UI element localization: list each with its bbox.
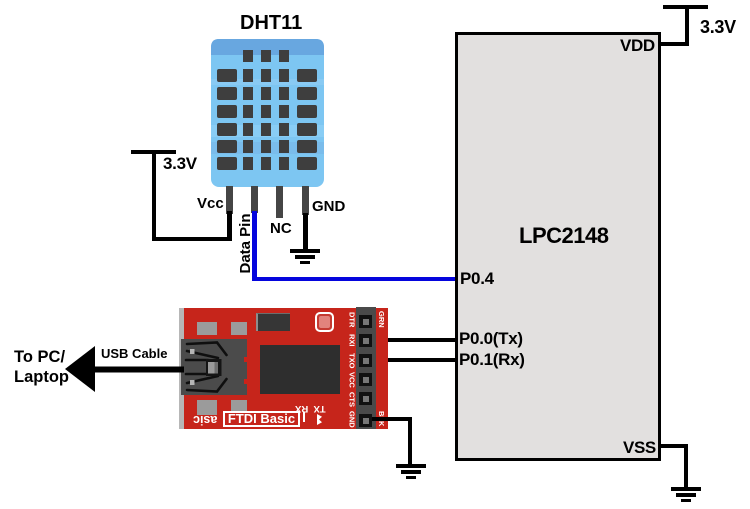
wire Vcc: up to pin 1 — [227, 211, 232, 241]
svg-text:VCC: VCC — [348, 372, 357, 388]
FTDI label box FTDI Basic — [223, 411, 300, 427]
power symbol 3.3V (left) — [131, 150, 176, 154]
FTDI label GRN — [377, 309, 387, 331]
FTDI pin VCC — [359, 373, 372, 386]
svg-text:GND: GND — [348, 411, 357, 428]
power symbol 3.3V (top right) bar — [663, 5, 708, 9]
FTDI pin RXI — [359, 334, 372, 347]
label LPC2148 — [519, 223, 608, 249]
FTDI pad top-right — [231, 322, 247, 335]
svg-text:GRN: GRN — [377, 311, 386, 328]
wire GND of DHT11 down — [303, 213, 308, 251]
USB connector — [181, 339, 248, 395]
FTDI silkscreen asic (rotated 180) — [193, 413, 217, 427]
FTDI label BLK — [377, 409, 387, 431]
arrow USB cable — [65, 345, 184, 393]
module FTDI Basic board — [179, 308, 388, 429]
pin label P0.1(Rx) — [459, 350, 525, 370]
FTDI reset button — [315, 312, 334, 332]
wire FTDI GND to ground — [372, 417, 412, 421]
FTDI pad bottom-left — [197, 400, 217, 415]
label USB Cable — [101, 346, 167, 361]
wire P0.1(Rx) from FTDI TXO — [375, 358, 455, 362]
pin 3 NC of DHT11 — [276, 186, 283, 218]
pin label P0.0(Tx) — [459, 329, 523, 349]
svg-text:DTR: DTR — [348, 312, 357, 328]
label NC — [270, 220, 292, 237]
FTDI pin CTS — [359, 392, 372, 405]
wire Vcc: horizontal bottom — [152, 237, 231, 241]
label Data Pin — [234, 212, 254, 276]
FTDI pin GND — [359, 414, 372, 427]
FTDI pin DTR — [359, 315, 372, 328]
FTDI crystal (top small rect) — [256, 313, 290, 331]
FTDI main chip — [260, 345, 340, 394]
ground symbol (under FTDI) — [396, 464, 426, 468]
FTDI left edge strip — [179, 308, 184, 429]
wire VSS: horizontal from box — [659, 444, 688, 448]
FTDI pin TXO — [359, 354, 372, 367]
FTDI silkscreen bar — [303, 412, 305, 422]
svg-text:CTS: CTS — [348, 392, 357, 407]
FTDI silkscreen icon — [317, 414, 322, 425]
wire VDD: vertical from 3.3V bar — [685, 5, 689, 46]
pin 4 GND of DHT11 — [302, 186, 309, 215]
wire Data (blue): horizontal to P0.4 — [252, 277, 455, 281]
pin 2 Data of DHT11 — [251, 186, 258, 213]
FTDI silkscreen TX RX (rotated 180) — [295, 403, 326, 414]
FTDI pin header column — [356, 307, 376, 429]
FTDI pin labels DTR RXI TXO VCC CTS GND — [347, 308, 357, 429]
svg-text:RXI: RXI — [348, 334, 357, 347]
wire VSS: vertical down — [684, 444, 688, 489]
pin label P0.4 — [460, 269, 494, 289]
pin label VSS — [623, 438, 656, 458]
pin 1 Vcc of DHT11 — [226, 186, 233, 214]
pin label VDD — [620, 36, 655, 56]
svg-text:TXO: TXO — [348, 353, 357, 369]
wire Vcc: down from 3.3V bar — [152, 150, 156, 241]
wire Data (blue): vertical from pin 2 — [252, 211, 257, 281]
sensor DHT11 body — [211, 39, 324, 187]
IC LPC2148 box — [455, 32, 661, 461]
ground symbol (bottom right) — [671, 487, 701, 491]
label DHT11 — [240, 12, 302, 35]
label 3.3V (top right) — [700, 17, 736, 38]
wire VDD: horizontal into box — [659, 42, 688, 46]
label Vcc — [197, 195, 224, 212]
label To PC/Laptop — [14, 347, 69, 387]
ground symbol (under DHT11) — [290, 249, 320, 253]
label GND — [312, 198, 345, 215]
wire P0.0(Tx) from FTDI RXI — [375, 338, 455, 342]
label 3.3V (left) — [163, 154, 197, 174]
FTDI pad bottom-right — [231, 400, 247, 415]
FTDI pad top-left — [197, 322, 217, 335]
